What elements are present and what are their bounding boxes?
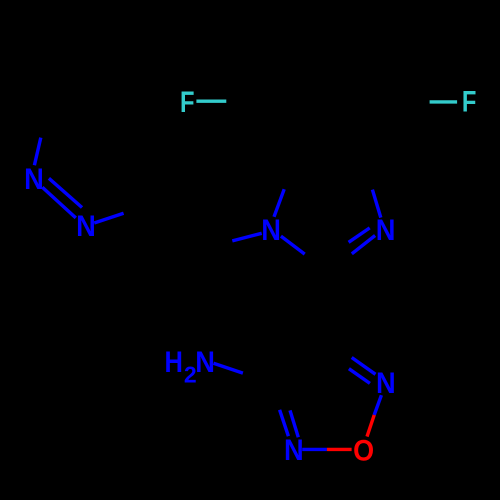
svg-text:N: N (24, 163, 44, 196)
svg-text:N: N (76, 210, 96, 243)
svg-text:N: N (284, 434, 304, 467)
svg-text:N: N (376, 367, 396, 400)
svg-text:N: N (376, 214, 396, 247)
svg-text:F: F (180, 86, 195, 119)
svg-text:N: N (195, 346, 215, 379)
svg-text:N: N (261, 214, 281, 247)
svg-text:H: H (164, 346, 182, 379)
svg-text:O: O (353, 435, 374, 468)
svg-text:F: F (462, 86, 477, 119)
